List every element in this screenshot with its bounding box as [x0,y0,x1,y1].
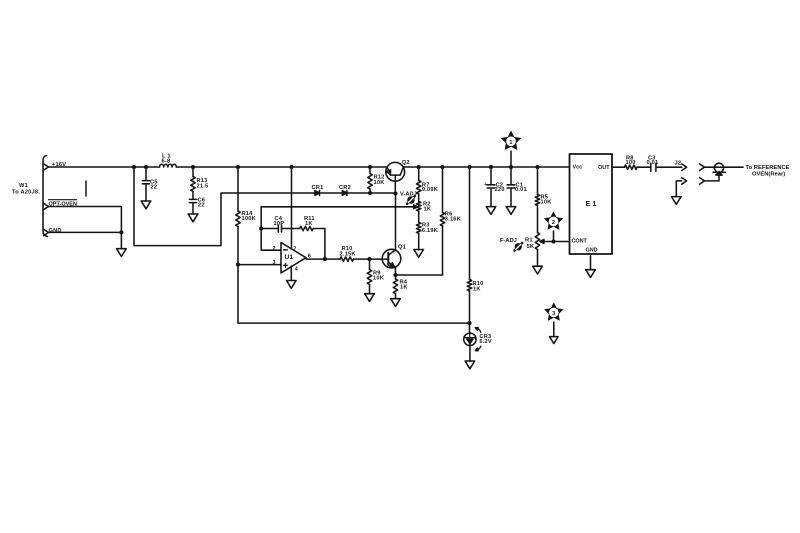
capacitor C1 [507,167,527,207]
resistor R3 [417,211,439,250]
node rail at R6 [440,165,444,169]
svg-text:3.16K: 3.16K [445,216,462,222]
svg-text:1: 1 [509,140,513,146]
svg-text:Vcc: Vcc [573,165,583,171]
svg-text:GND: GND [586,247,598,253]
svg-text:R10: R10 [342,246,353,252]
ground (C2) [486,207,496,215]
svg-text:1K: 1K [424,206,432,212]
node feedback junction [259,226,263,230]
svg-text:220: 220 [495,187,505,193]
svg-text:CR1: CR1 [312,185,324,191]
svg-text:+: + [484,182,487,188]
node output/feedback [323,257,327,261]
connector J2 pin 2 [682,178,687,185]
svg-text:6-8: 6-8 [162,158,171,164]
connector J2 pin 1 [675,161,687,171]
node rail at R7 [417,165,421,169]
node U1 pin3 junction [236,263,240,267]
svg-text:To REFERENCE: To REFERENCE [746,165,790,171]
ground (C5) [141,201,151,209]
label W1 [12,183,40,195]
label +16V [52,162,66,168]
svg-text:CONT: CONT [572,238,588,244]
svg-text:F-ADJ: F-ADJ [500,238,517,244]
wire CONT [554,241,570,243]
node zener line [467,321,471,325]
ground (R4) [391,299,401,307]
svg-text:J2: J2 [675,161,682,167]
resistor R4 [393,275,408,299]
test point 1 [501,131,522,168]
ground (C6) [188,214,198,222]
ground (connector GND) [117,249,127,257]
svg-text:100K: 100K [242,216,257,222]
svg-text:100: 100 [626,160,636,166]
label To REFERENCE OVEN [746,165,790,177]
ground (C1) [506,207,516,215]
resistor R2 (pot) [417,194,432,212]
node rail at C1 [509,165,513,169]
svg-text:0.01: 0.01 [515,187,527,193]
node OPT-OVEN/GND junction [119,230,123,234]
node rail at R13 [191,165,195,169]
resistor R10 2.15K [340,246,383,261]
svg-text:10K: 10K [541,200,553,206]
ground (R1) [533,266,543,274]
capacitor C4 [261,216,300,232]
svg-text:6.2V: 6.2V [479,339,492,345]
connector W1 pin OPT-OVEN [44,203,49,209]
ground (CR3) [465,361,475,369]
svg-text:1K: 1K [305,221,313,227]
svg-text:2: 2 [552,220,555,226]
svg-text:Q2: Q2 [402,160,410,166]
svg-text:9.09K: 9.09K [422,187,439,193]
connector W1 pin +16V [44,164,49,170]
test point 2 [544,211,563,241]
mating pin top [700,164,743,171]
svg-text:10K: 10K [374,180,386,186]
svg-text:3: 3 [273,260,276,266]
wire E1 GND [590,254,592,270]
svg-text:21.5: 21.5 [197,183,209,189]
adjust symbol V-ADJ [407,196,415,204]
label V-ADJ [400,191,417,197]
node rail at C5 [144,165,148,169]
svg-text:W1: W1 [19,183,28,189]
node Q1 emitter [393,273,397,277]
resistor R5 [535,167,552,233]
connector W1 pin GND [44,229,49,235]
transistor Q1 [382,245,406,275]
svg-text:To A20J8.: To A20J8. [12,190,40,196]
svg-text:E 1: E 1 [586,201,597,208]
svg-text:OUT: OUT [598,165,610,171]
resistor R8 [625,155,651,169]
resistor R14 [236,167,257,265]
svg-text:1K: 1K [400,285,408,291]
svg-text:0.01: 0.01 [647,160,659,166]
diode CR2 [339,185,396,196]
node rail at R14 [236,165,240,169]
ground (E1) [586,270,596,278]
svg-text:22: 22 [151,184,158,190]
resistor R9 [367,259,384,294]
wire rail to diode line [134,167,314,246]
resistor R11 [300,216,325,259]
wire R2 wiper to U1 pin2 [261,205,418,209]
svg-text:2.15K: 2.15K [340,251,357,257]
wire U1 pin4 [290,266,292,281]
svg-text:1K: 1K [473,287,481,293]
wire OPT-OVEN [49,207,122,233]
resistor R13 [191,167,209,192]
svg-text:10K: 10K [373,275,385,281]
resistor R6 [396,167,462,275]
resistor R10 1K [467,167,483,323]
wire J2 ground pin [676,181,681,197]
wire pin3 [238,264,281,266]
node V-ADJ [393,191,397,195]
inductor L1 [160,153,177,167]
ground (U1 pin4) [287,281,297,289]
mating pin bottom [700,175,719,184]
ground (J2) [672,197,682,205]
svg-text:U1: U1 [285,254,294,261]
capacitor C3 [647,155,682,171]
capacitor C2 [484,167,504,207]
wire U1 pin2 [261,207,281,250]
wire E1 OUT [612,166,625,168]
svg-text:22: 22 [198,203,205,209]
svg-text:R10: R10 [473,281,484,287]
test point 3 [544,302,563,336]
node rail at R5 [535,165,539,169]
node rail at pin7 [289,165,293,169]
node rail at R10 1K [467,165,471,169]
svg-text:10P: 10P [274,221,285,227]
transistor Q2 [386,160,410,193]
svg-text:R1: R1 [525,238,533,244]
ground (R3) [414,250,424,258]
node diode line at R12 [368,191,372,195]
svg-text:7: 7 [293,247,296,253]
node CONT junction [551,239,555,243]
select arrow top [475,328,481,333]
module E1 [570,154,613,254]
wire to zener line [238,265,470,324]
svg-text:Q1: Q1 [398,245,406,251]
select arrow bottom [475,346,481,351]
svg-text:4: 4 [295,266,299,272]
node rail at x134 [132,165,136,169]
node rail at R12 [368,165,372,169]
node Q1 base [367,257,371,261]
stray vertical mark [85,181,87,196]
connector W1 bracket [43,156,48,237]
svg-text:OVEN(Rear): OVEN(Rear) [752,172,785,178]
ground (R9) [365,294,375,302]
wire +16V rail [49,166,570,168]
capacitor C5 [142,167,157,201]
capacitor C6 [189,192,205,215]
resistor R1 (pot) [525,233,540,267]
adjust symbol F-ADJ [514,243,522,251]
resistor R12 [368,167,385,193]
diode CR1 [312,185,342,196]
wire GND from connector [49,232,122,248]
zener CR3 [464,323,492,361]
label OPT-OVEN [49,200,77,208]
svg-text:6.19K: 6.19K [422,228,439,234]
jack to oven [713,163,726,175]
op-amp U1 [273,243,312,274]
label GND (connector) [49,228,62,234]
resistor R7 [417,167,439,194]
node rail at C2 [489,165,493,169]
label F-ADJ [500,238,517,244]
wire U1 pin7 [291,167,293,247]
svg-text:5K: 5K [527,244,535,250]
svg-text:CR2: CR2 [339,185,351,191]
ground (TP3) [550,337,559,344]
wire U1 output [306,258,340,259]
wire Q2 base to Q1 collector [395,194,397,250]
svg-text:3: 3 [552,311,556,317]
wiper R1 [540,240,554,244]
